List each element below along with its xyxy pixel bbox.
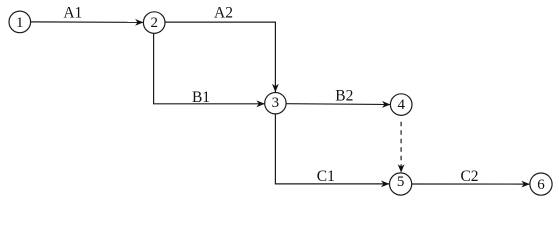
svg-text:2: 2: [150, 15, 158, 31]
svg-text:C1: C1: [317, 168, 335, 185]
node 1: [9, 11, 31, 33]
node 3: [265, 93, 286, 114]
svg-text:6: 6: [537, 177, 545, 193]
svg-text:C2: C2: [460, 168, 478, 185]
svg-text:3: 3: [272, 95, 280, 111]
dummy activity dashed arrow (node 4 to node 5): [400, 122, 402, 173]
node 5: [390, 173, 412, 195]
svg-text:5: 5: [397, 174, 405, 190]
wire B2 (node 3 to node 4): [286, 103, 390, 106]
wire C1 (node 3 bottom, corner, right into node 5 left): [275, 114, 389, 184]
svg-text:1: 1: [16, 15, 24, 31]
svg-text:B2: B2: [335, 88, 353, 105]
svg-text:B1: B1: [192, 89, 210, 106]
svg-text:A2: A2: [214, 5, 233, 22]
svg-text:4: 4: [397, 97, 405, 113]
wire A1 (node 1 to node 2): [31, 21, 144, 24]
node 6: [530, 173, 552, 195]
wire A2 (node 2 right, corner, down into node 3 top): [165, 22, 275, 92]
node 4: [390, 94, 412, 116]
wire C2 (node 5 to node 6): [412, 183, 530, 185]
svg-text:A1: A1: [63, 5, 82, 22]
node 2: [143, 12, 165, 34]
wire B1 (node 2 bottom, corner, right into node 3 left): [154, 34, 265, 104]
